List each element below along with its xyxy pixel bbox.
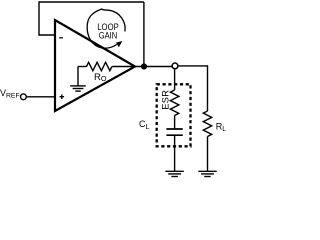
wire output to load node — [135, 66, 172, 68]
resistor ESR — [170, 90, 178, 115]
ground (C_L) — [165, 171, 183, 176]
svg-text:RO: RO — [94, 72, 107, 83]
loop gain arrowhead — [116, 41, 122, 47]
node terminal open circle — [172, 63, 178, 69]
wire to inverting input — [38, 34, 56, 36]
wire VREF to non-inverting input — [26, 96, 56, 98]
junction dot output node — [141, 63, 147, 69]
wire capacitor to ground — [174, 136, 176, 171]
op-amp U1 triangle — [55, 20, 135, 111]
loop gain bubble arrow — [87, 9, 125, 48]
svg-text:ESR: ESR — [161, 90, 171, 110]
wire C_L branch top — [174, 69, 176, 90]
ground (R_L) — [198, 171, 216, 176]
wire feedback left vertical — [38, 1, 40, 35]
wire feedback top horizontal — [39, 1, 144, 3]
wire R_O to output apex — [112, 66, 135, 68]
resistor R_L — [203, 111, 211, 136]
capacitor C_L plates — [166, 128, 182, 130]
wire R_O left to ground stem — [78, 66, 87, 68]
resistor R_O — [87, 62, 112, 70]
wire R_L to ground — [207, 137, 209, 172]
ground (op-amp internal) — [70, 67, 86, 92]
dashed box around ESR and C_L — [157, 84, 191, 146]
wire feedback vertical from output node up — [143, 2, 145, 67]
inverting input minus label — [59, 37, 63, 39]
terminal VREF open circle — [21, 94, 27, 100]
svg-text:GAIN: GAIN — [99, 30, 118, 40]
wire node to R_L branch corner — [178, 65, 208, 67]
wire ESR to capacitor — [174, 116, 176, 129]
non-inverting input plus label — [60, 94, 65, 99]
wire R_L branch vertical — [207, 65, 209, 111]
